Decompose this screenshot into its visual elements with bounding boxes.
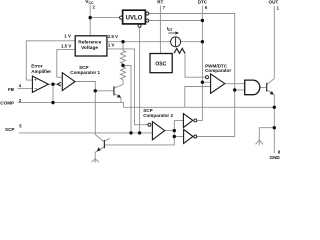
svg-text:Amplifier: Amplifier [31,69,51,74]
svg-text:SCP: SCP [5,127,14,132]
svg-text:5: 5 [19,124,22,129]
svg-text:OUT: OUT [269,0,279,5]
svg-text:FB: FB [8,87,15,92]
svg-text:GND: GND [270,155,281,160]
svg-text:−: − [34,86,37,91]
svg-text:6: 6 [205,5,208,10]
svg-text:RT: RT [157,0,163,4]
svg-text:4: 4 [19,83,22,88]
svg-text:Voltage: Voltage [81,45,98,51]
svg-text:COMP: COMP [0,100,14,105]
svg-text:1: 1 [277,5,280,10]
svg-text:Comparator 2: Comparator 2 [143,113,173,118]
svg-text:Comparator 1: Comparator 1 [70,70,100,75]
svg-text:7: 7 [163,5,166,10]
svg-text:1.5 V: 1.5 V [61,43,71,48]
svg-text:OSC: OSC [155,62,166,68]
svg-text:DTC: DTC [198,0,208,4]
svg-text:Comparator: Comparator [205,68,231,73]
svg-text:Reference: Reference [78,40,102,46]
svg-text:Error: Error [31,64,42,69]
svg-text:IDT: IDT [167,26,174,32]
svg-text:1 V: 1 V [64,33,71,38]
svg-text:1 V: 1 V [108,43,115,48]
svg-text:2: 2 [93,5,96,10]
svg-text:2.5 V: 2.5 V [108,34,118,39]
svg-text:UVLO: UVLO [126,15,143,21]
svg-text:8: 8 [278,150,280,155]
